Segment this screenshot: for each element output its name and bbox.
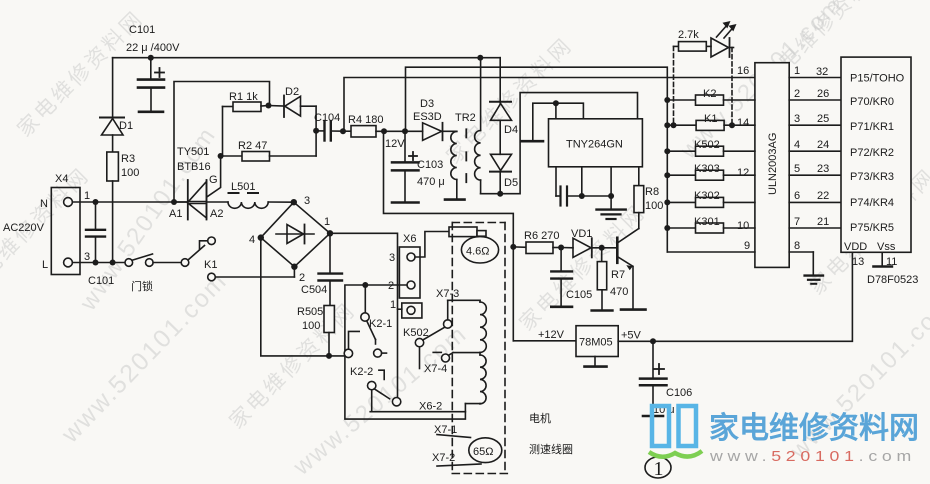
triac TY501 BTB16 bbox=[169, 146, 228, 220]
svg-text:D5: D5 bbox=[504, 177, 518, 189]
svg-text:D4: D4 bbox=[504, 124, 518, 136]
node bridge corner 2 bbox=[291, 264, 297, 270]
svg-text:1: 1 bbox=[324, 216, 330, 228]
svg-text:4: 4 bbox=[249, 234, 255, 246]
diode VD1 bbox=[561, 228, 617, 257]
svg-text:K302: K302 bbox=[694, 190, 720, 202]
transistor Q1 bbox=[617, 229, 645, 310]
switch K2-1 bbox=[361, 285, 392, 357]
svg-text:32: 32 bbox=[816, 66, 828, 78]
capacitor C103 470u bbox=[392, 131, 445, 202]
svg-text:K502: K502 bbox=[694, 139, 720, 151]
wire X6 pin2 branch bbox=[345, 285, 466, 419]
resistor K303 bbox=[664, 163, 755, 180]
svg-text:测速线圈: 测速线圈 bbox=[529, 442, 573, 456]
diode D4 bbox=[490, 58, 518, 155]
svg-text:VDD: VDD bbox=[844, 241, 867, 253]
svg-text:AC220V: AC220V bbox=[3, 222, 45, 234]
wire X7-4 mid tap bbox=[424, 352, 480, 375]
op-amp U2 TNY264GN bbox=[549, 119, 643, 167]
svg-text:14: 14 bbox=[737, 117, 749, 129]
diode D1 bbox=[100, 118, 133, 153]
resistor R4 180 bbox=[344, 114, 423, 150]
node D2/R2/C104 bbox=[313, 128, 319, 134]
node bridge corner 4 bbox=[258, 234, 264, 240]
svg-text:R505: R505 bbox=[297, 306, 323, 318]
svg-text:C104: C104 bbox=[314, 112, 340, 124]
svg-text:C101: C101 bbox=[88, 275, 114, 287]
node L-R3 bbox=[110, 260, 116, 266]
motor dashed enclosure bbox=[452, 223, 509, 474]
svg-text:8: 8 bbox=[794, 240, 800, 252]
svg-text:1: 1 bbox=[84, 190, 90, 202]
node R1/D2 bbox=[266, 103, 272, 109]
svg-text:X7-4: X7-4 bbox=[424, 363, 447, 375]
node TNY gnd pin bbox=[608, 193, 614, 199]
svg-text:Vss: Vss bbox=[877, 241, 896, 253]
node C103 tap bbox=[402, 128, 408, 134]
bridge rectifier bbox=[249, 195, 330, 284]
svg-text:2.7k: 2.7k bbox=[678, 29, 699, 41]
svg-text:78M05: 78M05 bbox=[579, 337, 613, 349]
svg-text:100: 100 bbox=[121, 167, 139, 179]
svg-text:5: 5 bbox=[794, 163, 800, 175]
resistor K2 bbox=[664, 88, 755, 105]
svg-text:D1: D1 bbox=[119, 120, 133, 132]
svg-text:C105: C105 bbox=[566, 289, 592, 301]
svg-text:2: 2 bbox=[388, 280, 394, 292]
svg-text:2: 2 bbox=[299, 272, 305, 284]
transformer TR2 secondary bbox=[475, 58, 501, 194]
diode D5 bbox=[490, 154, 518, 193]
svg-text:R7: R7 bbox=[611, 269, 625, 281]
svg-text:X6-2: X6-2 bbox=[419, 401, 442, 413]
node secondary bottom bbox=[497, 191, 503, 197]
svg-text:16: 16 bbox=[737, 65, 749, 77]
svg-text:N: N bbox=[40, 198, 48, 210]
node TNY aux pin bbox=[553, 100, 559, 106]
svg-text:X6: X6 bbox=[403, 233, 416, 245]
resistor R8 100 bbox=[634, 167, 663, 229]
svg-text:家电维修资料网: 家电维修资料网 bbox=[709, 412, 919, 445]
svg-text:26: 26 bbox=[817, 88, 829, 100]
node R505 bottom bbox=[326, 353, 332, 359]
wire R1-R2 left link bbox=[222, 107, 224, 157]
wire ULN pin8 bbox=[789, 240, 813, 252]
svg-text:门锁: 门锁 bbox=[131, 279, 153, 293]
resistor R505 100 bbox=[297, 306, 334, 356]
svg-text:3: 3 bbox=[794, 113, 800, 125]
svg-text:4.6Ω: 4.6Ω bbox=[466, 246, 490, 258]
labels ULN right pins bbox=[794, 65, 829, 228]
capacitor C504 bbox=[301, 233, 342, 305]
svg-text:1: 1 bbox=[390, 299, 396, 311]
connector X6 bbox=[388, 233, 422, 318]
capacitor C105 bbox=[551, 248, 592, 307]
svg-text:12: 12 bbox=[737, 167, 749, 179]
node R7 tap bbox=[599, 245, 605, 251]
ground TNY bbox=[597, 196, 626, 219]
svg-text:K2-1: K2-1 bbox=[369, 318, 392, 330]
wire ULN outputs to MCU bbox=[789, 78, 841, 229]
motor main winding coils bbox=[480, 300, 486, 404]
svg-text:C504: C504 bbox=[301, 284, 327, 296]
svg-text:23: 23 bbox=[817, 163, 829, 175]
resistor R6 270 bbox=[513, 230, 561, 254]
op-amp U3 D78F0523 MCU bbox=[841, 57, 911, 253]
svg-text:1: 1 bbox=[794, 65, 800, 77]
wire LED dashed links bbox=[674, 46, 733, 125]
wire TNY aux with bar terminal bbox=[521, 103, 583, 141]
svg-text:www.520101.com: www.520101.com bbox=[709, 448, 916, 465]
svg-text:C101: C101 bbox=[129, 24, 155, 36]
node pole contact bbox=[344, 331, 359, 357]
capacitor C101 (film, across mains) bbox=[86, 202, 114, 287]
node L-C101 bbox=[93, 260, 99, 266]
switch door-lock bbox=[125, 254, 181, 293]
svg-text:R6 270: R6 270 bbox=[524, 230, 559, 242]
switch K1 bbox=[181, 237, 294, 281]
connector X4 bbox=[3, 173, 90, 275]
svg-text:P73/KR3: P73/KR3 bbox=[850, 171, 894, 183]
svg-text:65Ω: 65Ω bbox=[473, 446, 493, 458]
svg-text:K2: K2 bbox=[703, 88, 716, 100]
svg-text:BTB16: BTB16 bbox=[177, 161, 211, 173]
svg-text:4: 4 bbox=[794, 139, 800, 151]
svg-text:7: 7 bbox=[794, 216, 800, 228]
wire ULN pin9 bbox=[667, 240, 755, 252]
resistor R2 47 bbox=[218, 131, 317, 161]
svg-text:2: 2 bbox=[794, 88, 800, 100]
svg-text:470: 470 bbox=[610, 286, 628, 298]
wire L line bbox=[72, 262, 125, 264]
diode D2 bbox=[269, 86, 317, 131]
svg-text:22: 22 bbox=[817, 190, 829, 202]
motor resistance 4.6 ohm bbox=[449, 227, 499, 263]
transformer TR2 primary bbox=[445, 112, 476, 200]
node bridge corner 1 bbox=[327, 230, 333, 236]
svg-text:13: 13 bbox=[852, 256, 864, 268]
resistor K1 bbox=[664, 113, 755, 130]
svg-text:P15/TOHO: P15/TOHO bbox=[850, 73, 905, 85]
node N-C101 bbox=[93, 199, 99, 205]
inductor L501 bbox=[228, 181, 294, 208]
svg-text:100: 100 bbox=[645, 200, 663, 212]
svg-text:R4 180: R4 180 bbox=[348, 114, 383, 126]
svg-text:470 μ: 470 μ bbox=[417, 176, 445, 188]
svg-text:R2 47: R2 47 bbox=[238, 140, 267, 152]
wire N line bbox=[72, 201, 187, 203]
LED indicator bbox=[711, 21, 737, 57]
wire D1/R3 branch bbox=[112, 58, 114, 118]
svg-text:K1: K1 bbox=[204, 259, 217, 271]
wire TNY bottom pins bbox=[556, 167, 611, 206]
node TNY source pin bbox=[579, 193, 585, 199]
resistor R1 1k bbox=[223, 91, 269, 112]
svg-text:3: 3 bbox=[389, 252, 395, 264]
svg-text:D3: D3 bbox=[420, 98, 434, 110]
node C101 top junction bbox=[148, 55, 154, 61]
resistor K301 bbox=[664, 216, 755, 233]
svg-text:ULN2003AG: ULN2003AG bbox=[767, 133, 779, 195]
svg-text:L501: L501 bbox=[231, 181, 255, 193]
svg-text:P75/KR5: P75/KR5 bbox=[850, 222, 894, 234]
svg-text:+5V: +5V bbox=[621, 330, 642, 342]
resistor R7 470 bbox=[592, 248, 629, 311]
svg-text:3: 3 bbox=[304, 195, 310, 207]
svg-text:24: 24 bbox=[817, 139, 829, 151]
svg-text:C103: C103 bbox=[417, 159, 443, 171]
wire X7-2 stub bbox=[432, 452, 481, 466]
resistor K502 bbox=[664, 139, 755, 156]
wire +12V rail bbox=[406, 67, 668, 252]
wire X7-3 bbox=[436, 288, 480, 300]
svg-text:G: G bbox=[209, 174, 218, 186]
svg-text:22 μ /400V: 22 μ /400V bbox=[126, 42, 180, 54]
resistor K302 bbox=[664, 190, 755, 207]
svg-text:10: 10 bbox=[737, 220, 749, 232]
svg-text:1: 1 bbox=[654, 458, 664, 479]
svg-text:P74/KR4: P74/KR4 bbox=[850, 197, 894, 209]
svg-text:ES3D: ES3D bbox=[413, 111, 442, 123]
resistor R3 100 bbox=[107, 152, 140, 263]
svg-text:P72/KR2: P72/KR2 bbox=[850, 147, 894, 159]
svg-text:9: 9 bbox=[744, 240, 750, 252]
diode D3 ES3D bbox=[413, 98, 457, 140]
node N-A1 bbox=[171, 199, 177, 205]
svg-text:3: 3 bbox=[84, 251, 90, 263]
wire bridge plus to X6 pin1 feeder bbox=[330, 233, 398, 397]
node C105 tap bbox=[558, 245, 564, 251]
wire X6 pin3 to motor bbox=[415, 232, 449, 258]
wire bridge corner4 to pole bbox=[261, 238, 344, 356]
resistor 2.7k bbox=[674, 29, 712, 51]
svg-text:6: 6 bbox=[794, 190, 800, 202]
svg-text:TY501: TY501 bbox=[177, 146, 209, 158]
capacitor C101 22u/400V bbox=[126, 24, 180, 112]
svg-text:R3: R3 bbox=[121, 153, 135, 165]
svg-text:D78F0523: D78F0523 bbox=[867, 274, 918, 286]
wire R1 upper loop bbox=[174, 82, 270, 203]
wire top HV rail bbox=[113, 57, 501, 59]
svg-text:VD1: VD1 bbox=[571, 228, 592, 240]
node K2-1 feeder bbox=[362, 282, 368, 288]
node R6 tap bbox=[510, 244, 516, 250]
transformer TR2 core bbox=[465, 129, 467, 182]
decorative site logo bbox=[652, 406, 696, 446]
svg-text:X7-3: X7-3 bbox=[436, 288, 459, 300]
svg-text:L: L bbox=[42, 259, 48, 271]
tacho coil 65 ohm bbox=[469, 438, 502, 463]
svg-text:K1: K1 bbox=[704, 113, 717, 125]
svg-text:R8: R8 bbox=[645, 186, 659, 198]
svg-text:+12V: +12V bbox=[538, 329, 565, 341]
svg-text:K502: K502 bbox=[403, 327, 429, 339]
svg-text:K2-2: K2-2 bbox=[350, 366, 373, 378]
svg-text:21: 21 bbox=[817, 216, 829, 228]
svg-text:25: 25 bbox=[817, 113, 829, 125]
capacitor C106 10u bbox=[640, 341, 692, 416]
svg-text:TNY264GN: TNY264GN bbox=[566, 139, 623, 151]
wire +5V rail bbox=[618, 252, 852, 341]
svg-text:电机: 电机 bbox=[529, 411, 551, 425]
node C104/rail bbox=[340, 128, 346, 134]
wire X6-2 bbox=[370, 401, 480, 413]
node secondary top on rail bbox=[477, 55, 483, 61]
wire X7-1 stub bbox=[434, 424, 471, 438]
svg-text:X4: X4 bbox=[55, 173, 68, 185]
switch K502 bbox=[403, 300, 452, 368]
svg-text:D2: D2 bbox=[285, 86, 299, 98]
ground ULN pin8 bbox=[805, 252, 823, 284]
switch K2-2 bbox=[350, 366, 401, 412]
svg-text:A2: A2 bbox=[210, 208, 223, 220]
svg-text:C106: C106 bbox=[666, 387, 692, 399]
svg-text:P70/KR0: P70/KR0 bbox=[850, 96, 894, 108]
ground Vss pin bbox=[874, 252, 892, 266]
wire C104 rail to ULN pin16 bbox=[343, 78, 755, 132]
node page ref 1 bbox=[645, 457, 671, 480]
capacitor C104 bbox=[314, 112, 343, 141]
wire 12V feed down to regulator bbox=[384, 131, 514, 340]
node bridge corner 3 bbox=[291, 199, 297, 205]
svg-text:K303: K303 bbox=[694, 163, 720, 175]
svg-text:K301: K301 bbox=[694, 216, 720, 228]
svg-text:R1 1k: R1 1k bbox=[229, 91, 258, 103]
op-amp U1 ULN2003AG bbox=[755, 63, 789, 268]
regulator 78M05 bbox=[513, 326, 618, 367]
wire D4D5 return loop to TNY bbox=[500, 93, 637, 194]
svg-text:100: 100 bbox=[302, 320, 320, 332]
svg-text:12V: 12V bbox=[385, 138, 405, 150]
node C106 tap bbox=[650, 338, 656, 344]
svg-text:P71/KR1: P71/KR1 bbox=[850, 121, 894, 133]
node R4 out bbox=[381, 128, 387, 134]
svg-text:TR2: TR2 bbox=[455, 112, 476, 124]
svg-text:A1: A1 bbox=[169, 208, 182, 220]
